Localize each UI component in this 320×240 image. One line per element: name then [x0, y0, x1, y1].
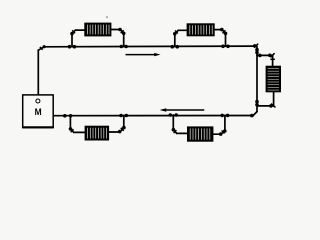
tick: R4 left valve cross: [174, 130, 177, 133]
tick: R2 left valve cross: [175, 31, 178, 34]
wire: R3 left diagonal: [70, 129, 73, 133]
node: R4 right elbow dot: [223, 129, 227, 133]
node: R4 right pipe junction dots: [220, 114, 224, 118]
node: R1 right pipe junction dots: [120, 45, 124, 49]
sensor circle inside boiler: [36, 99, 40, 103]
wire: R1 left diagonal: [72, 30, 75, 34]
wire: R2 right diagonal: [222, 30, 226, 34]
node: R3 right pipe junction dots: [119, 114, 123, 118]
supply flow arrow (points right): [126, 53, 161, 56]
node: R3 left elbow dot: [69, 127, 73, 131]
node: R4 right stub dot: [219, 132, 223, 136]
node: R2 right elbow dot: [224, 32, 228, 36]
tick: R5 top valve cross: [270, 53, 274, 57]
wire: R2 left riser: [174, 34, 176, 47]
node: R4 left pipe junction dots: [169, 113, 173, 117]
return flow arrow (points left): [160, 108, 205, 111]
node: dots on right vertical (top): [255, 48, 259, 52]
radiator R2 (top right): [187, 23, 215, 36]
wire: R1 left stub: [75, 29, 85, 31]
wire: R2 left stub: [178, 29, 187, 31]
radiator R3 (bottom left): [85, 126, 110, 141]
radiator R4 (bottom right): [187, 126, 213, 141]
boiler bottom thick edge: [23, 126, 54, 128]
tick: R3 right valve cross: [121, 128, 124, 131]
node: R3 right elbow dot: [122, 126, 126, 130]
tick: R4 right valve cross: [222, 131, 225, 134]
wire: R5 bottom riser: [273, 92, 275, 106]
wire: R3 right riser: [123, 116, 125, 129]
wire: R4 right riser: [224, 115, 226, 131]
wire: return main (bottom pipe): [54, 115, 254, 117]
wire: R1 left riser: [71, 34, 73, 47]
node: R1 left elbow dot: [70, 32, 74, 36]
node: R2 left elbow dot: [173, 32, 177, 36]
node: dots on right vertical (bottom): [255, 100, 259, 104]
node: R5 top elbow dot: [268, 54, 272, 58]
wire: R2 left diagonal: [175, 30, 178, 34]
wire: R3 left riser: [69, 116, 71, 129]
node: R1 right stub dot: [118, 28, 122, 32]
wire: R4 left stub: [177, 132, 188, 134]
wire: R1 right stub: [110, 29, 120, 31]
node: dot on return near corner: [250, 114, 254, 118]
wire: bottom-right corner diagonal: [253, 112, 257, 116]
wire: R1 right diagonal: [120, 30, 124, 34]
wire: R1 right riser: [123, 33, 125, 46]
svg-text:M: M: [35, 106, 42, 117]
node: R2 right pipe junction dots: [221, 45, 225, 49]
air-vent mark above R1: [106, 16, 108, 18]
wire: R3 left stub: [74, 131, 86, 133]
wire: R2 right stub: [214, 29, 222, 31]
tick: R1 left valve cross: [72, 30, 75, 33]
tick: top-right corner cross: [254, 44, 258, 48]
node: R5 top branch dot: [258, 54, 262, 58]
radiator R5 (right column): [266, 66, 281, 93]
wire: left drop to boiler: [37, 50, 39, 99]
node: R2 left pipe junction dots: [171, 45, 175, 49]
tick: R3 left valve cross: [71, 129, 74, 132]
tick: top-left corner cross: [40, 47, 43, 50]
node: R2 right stub dot: [220, 28, 224, 32]
wire: R4 left riser: [172, 115, 174, 130]
wire: R5 top riser down: [272, 55, 274, 66]
radiator R1 (top left): [84, 23, 111, 37]
tick: R5 top riser crossbar: [270, 58, 275, 60]
wire: R3 right diagonal: [120, 128, 124, 132]
wire: R2 right riser: [225, 33, 227, 46]
wire: R5 top branch: [257, 54, 273, 56]
node: R5 bottom elbow dot: [269, 104, 273, 108]
node: R1 right elbow dot: [122, 32, 126, 36]
tick: R2 right valve cross: [223, 30, 226, 33]
wire: R5 bottom branch: [257, 105, 274, 107]
wire: supply main (top pipe): [44, 45, 255, 48]
tick: R5 bottom valve cross: [271, 104, 275, 108]
wire: R4 right diagonal: [221, 131, 225, 134]
wire: R4 left diagonal: [173, 130, 176, 134]
tick: R1 right valve cross: [121, 30, 124, 33]
wire: R4 right stub: [212, 133, 220, 135]
wire: top-left corner diagonal: [38, 47, 44, 50]
boiler B1: [23, 95, 54, 128]
node: R4 left elbow dot: [172, 128, 176, 132]
node: R3 right stub dot: [118, 130, 122, 134]
node: R1 left pipe junction dots: [68, 45, 72, 49]
wire: R3 right stub: [108, 131, 120, 133]
node: top-right corner dot: [253, 44, 257, 48]
node: top-left corner dot: [43, 45, 46, 48]
wire: right vertical main: [256, 46, 258, 111]
node: R3 left pipe junction dots: [63, 114, 67, 118]
